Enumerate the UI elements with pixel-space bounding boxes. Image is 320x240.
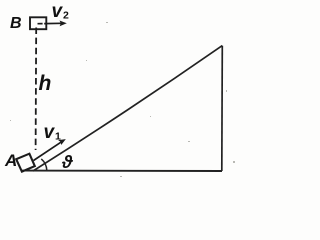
svg-text:h: h xyxy=(39,72,52,95)
svg-text:1: 1 xyxy=(55,131,61,143)
dashed line h xyxy=(35,28,38,151)
right vertical side xyxy=(221,46,224,171)
vector v2 arrow xyxy=(38,21,67,27)
block A xyxy=(16,154,35,172)
angle arc xyxy=(41,159,47,170)
block B xyxy=(30,17,46,29)
incline hypotenuse xyxy=(33,46,222,171)
svg-text:2: 2 xyxy=(63,10,69,22)
svg-text:A: A xyxy=(4,151,17,170)
vector v1 arrow xyxy=(34,139,66,160)
svg-text:v: v xyxy=(44,122,56,143)
svg-text:ϑ: ϑ xyxy=(61,152,73,172)
svg-text:v: v xyxy=(52,1,64,22)
base line xyxy=(21,170,222,172)
scan speckles xyxy=(10,22,235,177)
svg-text:B: B xyxy=(10,15,22,32)
